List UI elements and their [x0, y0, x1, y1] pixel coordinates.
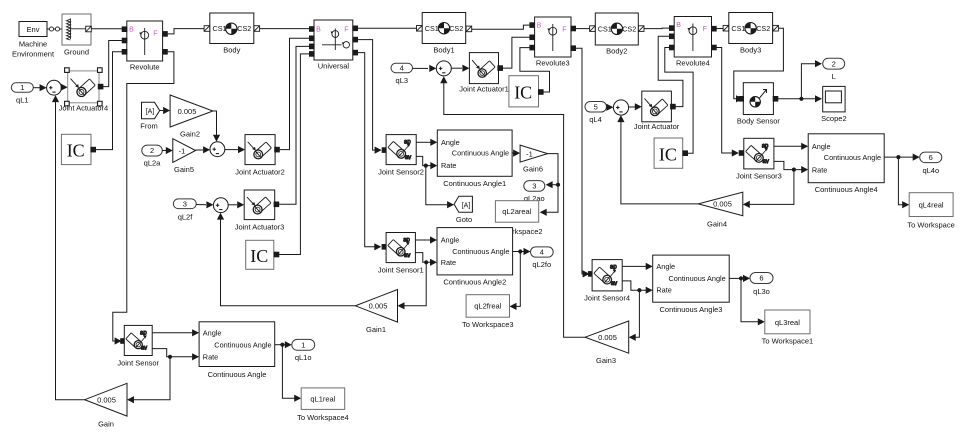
svg-text:ap: ap [403, 238, 410, 244]
sum Sum qL2a [210, 142, 225, 157]
svg-text:Env: Env [27, 25, 40, 34]
svg-text:qL2a: qL2a [144, 159, 162, 168]
goto Goto [A] [454, 196, 472, 224]
svg-text:0.005: 0.005 [369, 302, 388, 311]
svg-text:qL1o: qL1o [295, 353, 312, 362]
svg-text:CS2: CS2 [756, 24, 770, 33]
svg-text:Ground: Ground [64, 48, 89, 57]
svg-text:Joint Actuator1: Joint Actuator1 [459, 85, 509, 94]
wire Continuous Angle1 to Gain6 [512, 150, 520, 157]
block To Workspace3 qL2freal [462, 295, 514, 330]
wire Joint Actuator3 to Universal port3 [279, 46, 310, 204]
block Body Sensor [737, 83, 780, 126]
block Ground [62, 14, 91, 57]
svg-text:CS2: CS2 [237, 24, 251, 33]
svg-text:To Workspace1: To Workspace1 [762, 336, 814, 345]
joint Revolute4 [669, 17, 717, 68]
svg-text:F: F [703, 26, 707, 33]
inport 2 qL2a [142, 145, 163, 167]
svg-text:Rate: Rate [812, 165, 827, 174]
svg-text:Joint Sensor2: Joint Sensor2 [378, 167, 424, 176]
svg-text:B: B [316, 27, 321, 34]
wire Revolute sensor port to Joint Sensor [113, 52, 174, 345]
wire Sum qL4 to Joint Actuator [629, 103, 642, 110]
svg-text:Angle: Angle [441, 236, 460, 245]
svg-text:F: F [344, 27, 348, 34]
svg-text:Scope2: Scope2 [821, 114, 846, 123]
wire Joint Sensor4 ap to Continuous Angle3 [622, 263, 653, 270]
svg-text:CS1: CS1 [731, 24, 745, 33]
inport 1 qL1 [11, 83, 33, 105]
wire Joint Actuator4 to Revolute port2 [103, 41, 122, 87]
svg-text:Rate: Rate [441, 258, 456, 267]
svg-text:ap: ap [610, 265, 617, 271]
gain Gain 0.005 [85, 383, 127, 428]
block Body1 [417, 13, 472, 55]
outport 1 qL1o [292, 339, 315, 361]
block To Workspace4 qL1real [297, 388, 349, 422]
svg-text:qL4: qL4 [589, 115, 602, 124]
svg-text:IC: IC [514, 83, 532, 103]
svg-text:qL1real: qL1real [310, 394, 335, 403]
svg-text:Joint Actuator4: Joint Actuator4 [59, 103, 109, 112]
svg-text:F: F [153, 31, 157, 38]
svg-text:Continuous Angle1: Continuous Angle1 [443, 179, 506, 188]
gain Gain4 0.005 [698, 192, 743, 228]
svg-text:Gain4: Gain4 [707, 219, 727, 228]
wire Body Sensor to Scope2 and outport L [777, 60, 822, 102]
svg-text:Gain: Gain [98, 419, 114, 428]
gain Gain3 0.005 [585, 321, 629, 365]
svg-text:Body Sensor: Body Sensor [737, 117, 780, 126]
wire Continuous Angle to qL1o and To Workspace4 [275, 341, 302, 402]
block Joint Actuator2 [235, 135, 285, 177]
block Joint Sensor1 [378, 233, 424, 275]
svg-text:To Workspace3: To Workspace3 [462, 320, 514, 329]
svg-text:qL2freal: qL2freal [474, 302, 501, 311]
block Joint Sensor4 [584, 260, 630, 303]
block Body2 [590, 13, 644, 56]
wire Gain3 to Sum qL3 bottom [440, 76, 585, 337]
block Joint Actuator1 [459, 53, 509, 94]
svg-text:Continuous Angle: Continuous Angle [452, 247, 509, 256]
sum Sum qL2f [213, 198, 228, 213]
wire qL3 to Sum qL3 [413, 65, 437, 72]
block Body3 [723, 13, 778, 55]
wire qL4 to Sum qL4 [606, 104, 613, 111]
wire Revolute4 F to Body3 CS1 [717, 28, 724, 30]
svg-text:Environment: Environment [12, 50, 55, 59]
svg-text:qL2areal: qL2areal [502, 207, 532, 216]
wire Revolute3 sensor port to Joint Sensor4 [576, 48, 594, 277]
svg-text:CS1: CS1 [213, 24, 227, 33]
block Body [204, 13, 260, 55]
joint Universal [309, 20, 358, 71]
wire Body CS2 to Universal B [260, 28, 312, 30]
svg-text:qL2f: qL2f [178, 212, 194, 221]
svg-text:Gain3: Gain3 [596, 356, 616, 365]
wire Sum qL3 to Joint Actuator1 [451, 65, 469, 72]
svg-text:Continuous Angle4: Continuous Angle4 [815, 185, 878, 194]
svg-text:Angle: Angle [656, 262, 675, 271]
wire IC4 to Revolute4 port3 [665, 48, 693, 154]
wire Body3 CS2 to Body Sensor [734, 28, 784, 102]
svg-text:qL3: qL3 [396, 76, 409, 85]
wire Joint Actuator1 to Revolute3 port2 [503, 37, 530, 68]
svg-text:0.005: 0.005 [598, 333, 617, 342]
block Continuous Angle [199, 322, 275, 379]
svg-text:Revolute3: Revolute3 [536, 59, 570, 68]
wire Body2 CS2 to Revolute4 B [644, 27, 670, 30]
outport 2 L [823, 58, 845, 81]
inport 3 qL2f [173, 199, 196, 221]
wire IC3 to Universal port4 [279, 54, 310, 255]
gain Gain5 -1 [173, 139, 196, 174]
svg-text:4: 4 [400, 64, 404, 73]
svg-text:Body: Body [223, 46, 240, 55]
block Continuous Angle3 [653, 255, 730, 314]
svg-text:Universal: Universal [318, 62, 350, 71]
wire Continuous Angle2 to qL2fo and To Workspace3 [510, 248, 531, 310]
wire Joint Sensor3 ap to Continuous Angle4 [774, 143, 808, 150]
svg-text:av: av [763, 159, 769, 165]
wire Joint Sensor2 av to Rate and Goto [416, 156, 454, 208]
svg-text:Continuous Angle: Continuous Angle [824, 153, 881, 162]
wire Gain5 to Sum qL2a [196, 146, 211, 153]
svg-text:[A]: [A] [462, 202, 471, 209]
wire Sum to Joint Actuator4 [61, 84, 68, 91]
svg-text:ap: ap [140, 330, 147, 336]
block Continuous Angle4 [808, 134, 884, 194]
svg-text:qL3real: qL3real [775, 318, 800, 327]
svg-text:1: 1 [20, 83, 24, 92]
wire Universal port3R to Joint Sensor1 [358, 53, 388, 251]
block IC3 [246, 240, 280, 269]
wire qL2a to Gain5 [162, 147, 173, 154]
svg-text:Gain1: Gain1 [366, 325, 386, 334]
svg-text:Joint Sensor3: Joint Sensor3 [736, 171, 782, 180]
block Joint Actuator3 [235, 190, 285, 232]
wire Gain2 to Sum qL2a top [213, 111, 220, 142]
svg-text:qL1: qL1 [16, 96, 29, 105]
wire Sum qL2a to Joint Actuator2 [225, 146, 245, 153]
wire Joint Sensor2 ap to Continuous Angle1 [416, 139, 437, 146]
svg-text:qL4o: qL4o [922, 166, 939, 175]
svg-text:qL2fo: qL2fo [532, 260, 551, 269]
svg-text:To Workspace4: To Workspace4 [297, 413, 349, 422]
wire qL2f to Sum qL2f [196, 201, 213, 208]
svg-text:av: av [611, 281, 617, 287]
svg-text:IC: IC [67, 141, 85, 161]
svg-text:F: F [562, 27, 566, 34]
wire Universal port2R to Joint Sensor2 [358, 40, 388, 154]
svg-text:Body2: Body2 [606, 47, 627, 56]
block IC2 [509, 76, 544, 107]
svg-text:Machine: Machine [19, 40, 47, 49]
block Machine Environment (Env) [12, 22, 55, 59]
wire Joint Sensor1 av to Rate and Gain1 [398, 253, 438, 310]
svg-text:Joint Sensor: Joint Sensor [117, 358, 159, 367]
outport 4 qL2fo [531, 247, 554, 269]
outport 5 qL3o [750, 273, 773, 296]
svg-text:4: 4 [540, 248, 544, 257]
svg-text:Joint Actuator: Joint Actuator [634, 122, 680, 131]
wire Joint Actuator to Revolute4 port2 [658, 36, 683, 106]
svg-text:Angle: Angle [441, 138, 460, 147]
svg-text:2: 2 [150, 146, 154, 155]
wire Body1 CS2 to Revolute3 B [472, 25, 530, 29]
block From [A] [140, 102, 159, 130]
svg-text:Gain6: Gain6 [523, 164, 543, 173]
svg-text:ap: ap [404, 140, 411, 146]
svg-text:Angle: Angle [812, 142, 831, 151]
wire Joint Sensor ap to Continuous Angle [152, 329, 199, 336]
svg-text:Continuous Angle3: Continuous Angle3 [660, 305, 723, 314]
svg-text:CS2: CS2 [449, 24, 463, 33]
svg-text:Revolute4: Revolute4 [676, 59, 710, 68]
wire Ground to Revolute B [92, 28, 123, 30]
svg-text:1: 1 [301, 340, 305, 349]
wire Joint Sensor3 av to Rate and Gain4 [743, 161, 808, 208]
svg-text:0.005: 0.005 [178, 107, 197, 116]
svg-text:Continuous Angle2: Continuous Angle2 [443, 277, 506, 286]
svg-text:Angle: Angle [203, 329, 222, 338]
svg-text:To Workspace: To Workspace [907, 220, 954, 229]
svg-text:CS1: CS1 [425, 24, 439, 33]
outport 6 qL4o [920, 152, 942, 175]
svg-text:-1: -1 [179, 146, 186, 155]
svg-text:-1: -1 [526, 149, 533, 158]
svg-text:av: av [405, 155, 411, 161]
svg-text:3: 3 [183, 199, 187, 208]
svg-text:From: From [140, 122, 158, 131]
svg-text:CS1: CS1 [598, 25, 612, 34]
block IC4 [654, 138, 688, 168]
sum Sum qL4 [613, 100, 628, 115]
svg-text:Rate: Rate [203, 353, 218, 362]
wire Gain6 to qL2ao and To Workspace2 [540, 154, 560, 216]
wire From to Gain2 [160, 107, 170, 114]
svg-text:Rate: Rate [656, 286, 671, 295]
svg-text:B: B [676, 22, 681, 29]
svg-text:Continuous Angle: Continuous Angle [452, 149, 509, 158]
wire Continuous Angle4 to qL4o and To Workspace [884, 154, 920, 209]
svg-text:L: L [832, 72, 836, 81]
wire Gain to Sum qL1 bottom [52, 95, 85, 400]
svg-text:B: B [537, 23, 542, 30]
wire IC2 to Revolute3 port3 [520, 48, 550, 92]
svg-text:Gain5: Gain5 [174, 165, 194, 174]
svg-text:Joint Sensor1: Joint Sensor1 [378, 265, 424, 274]
gain Gain1 0.005 [355, 290, 397, 334]
wire Joint Sensor4 av to Rate and Gain3 [622, 281, 653, 341]
sum Sum qL1 [47, 80, 62, 95]
svg-text:ap: ap [762, 143, 769, 149]
svg-text:IC: IC [659, 145, 677, 165]
block To Workspace qL4real [907, 193, 954, 230]
svg-text:B: B [129, 27, 134, 34]
svg-text:qL4real: qL4real [919, 201, 944, 210]
svg-text:0.005: 0.005 [713, 200, 732, 209]
svg-text:CS2: CS2 [622, 25, 636, 34]
wire Sum qL2f to Joint Actuator3 [228, 201, 244, 208]
svg-text:[A]: [A] [146, 108, 155, 115]
joint Revolute [122, 21, 168, 72]
svg-text:6: 6 [929, 153, 933, 162]
wire Joint Sensor av to Rate and Gain [127, 349, 199, 404]
svg-text:Gain2: Gain2 [180, 129, 200, 138]
block Joint Actuator4 (selected) [59, 68, 109, 113]
svg-text:qL3o: qL3o [753, 287, 770, 296]
wire Joint Actuator2 to Universal port2 [280, 38, 310, 149]
svg-text:6: 6 [759, 274, 763, 283]
block Joint Actuator [634, 91, 680, 131]
svg-text:Joint Actuator2: Joint Actuator2 [235, 167, 285, 176]
block Continuous Angle1 [437, 130, 512, 188]
svg-text:Continuous Angle: Continuous Angle [668, 274, 725, 283]
block Joint Sensor2 [378, 135, 424, 177]
block Joint Sensor3 [736, 138, 782, 180]
svg-text:Body1: Body1 [433, 46, 454, 55]
wire Revolute3 F to Body2 CS1 [576, 28, 590, 30]
svg-text:5: 5 [594, 102, 598, 111]
svg-text:av: av [404, 253, 410, 259]
svg-text:0.005: 0.005 [97, 396, 116, 405]
block Joint Sensor [117, 325, 159, 367]
gain Gain2 0.005 [170, 95, 213, 138]
connector Env-Ground [47, 27, 62, 31]
wire Gain4 to Sum qL4 bottom [617, 115, 698, 204]
svg-text:Continuous Angle: Continuous Angle [208, 370, 267, 379]
svg-text:3: 3 [532, 182, 536, 191]
svg-text:Rate: Rate [441, 161, 456, 170]
wire IC1 to Revolute port3 [96, 52, 123, 150]
inport 5 qL4 [585, 102, 607, 124]
wire Revolute4 sensor port to Joint Sensor3 [716, 48, 744, 157]
svg-text:Joint Sensor4: Joint Sensor4 [584, 293, 630, 302]
svg-text:2: 2 [832, 59, 836, 68]
svg-text:Revolute: Revolute [130, 63, 160, 72]
svg-text:IC: IC [250, 246, 268, 266]
svg-text:Body3: Body3 [740, 46, 761, 55]
wire Gain1 to Sum qL2f bottom [217, 213, 356, 306]
svg-text:Goto: Goto [456, 215, 472, 224]
inport 4 qL3 [391, 63, 413, 85]
block Continuous Angle2 [437, 228, 513, 287]
block To Workspace1 qL3real [762, 310, 814, 345]
sum Sum qL3 [436, 61, 451, 76]
scope Scope2 [821, 86, 846, 123]
joint Revolute3 [529, 17, 576, 68]
wire Revolute F to Body CS1 [168, 29, 205, 34]
outport 3 qL2ao [524, 181, 545, 203]
svg-text:av: av [141, 346, 147, 352]
block To Workspace2 qL2areal [491, 201, 543, 236]
wire qL1 to Sum [33, 84, 46, 91]
svg-text:Continuous Angle: Continuous Angle [214, 341, 271, 350]
svg-text:Joint Actuator3: Joint Actuator3 [235, 223, 285, 232]
block IC1 [61, 134, 96, 164]
wire Continuous Angle3 to qL3o and To Workspace1 [729, 275, 765, 326]
wire Universal F to Body1 CS1 [358, 27, 417, 29]
gain Gain6 -1 [520, 145, 548, 173]
wire Joint Sensor1 ap to Continuous Angle2 [415, 236, 437, 243]
